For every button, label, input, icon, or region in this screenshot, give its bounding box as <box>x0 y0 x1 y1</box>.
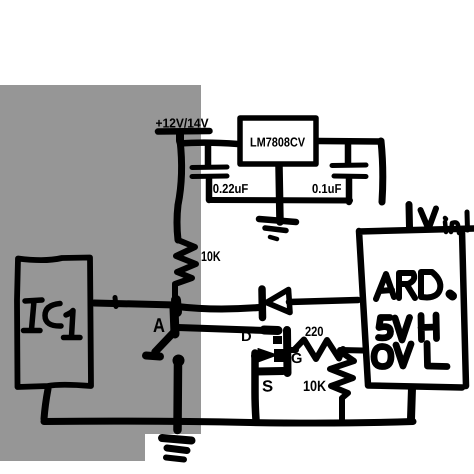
capacitor C2 plates <box>332 163 366 169</box>
MOSFET Q2 body contact bar <box>274 349 284 362</box>
wire: MOSFET gate stub <box>289 347 296 353</box>
label 220 <box>305 327 323 337</box>
node A junction blob <box>176 300 177 312</box>
label S (source) <box>263 380 273 391</box>
label D (drain) <box>242 332 251 341</box>
resistor R3 10K vertical zigzag <box>330 352 354 420</box>
capacitor C1 plates <box>192 165 227 171</box>
wire: diode to ARD box <box>289 300 358 302</box>
wire: IC1 output to node A junction <box>94 303 176 305</box>
wire: 220 to ARD box <box>340 347 363 354</box>
ground symbol bottom <box>162 438 192 441</box>
wire: collector dot to ground run <box>173 361 182 430</box>
capacitor C2 stub bottom <box>346 178 353 202</box>
MOSFET Q2 source bottom bar <box>256 367 283 376</box>
MOSFET Q2 body arrow <box>254 353 262 360</box>
ARD box <box>359 229 474 388</box>
transistor Q1 emitter diagonal <box>155 332 174 352</box>
LM7808 regulator box U2 <box>240 118 316 164</box>
label 10K (upper resistor) <box>202 251 221 261</box>
diode D1 cathode bar <box>258 289 266 318</box>
label LM7808CV <box>251 137 305 146</box>
resistor R1 10K vertical zigzag <box>175 240 196 308</box>
junction dot at emitter ground wire <box>173 355 185 367</box>
+12V/14V supply bar <box>158 128 210 135</box>
Vin right bracket <box>465 212 471 230</box>
bottom ground wire <box>44 421 413 423</box>
ground bus under caps <box>209 197 350 204</box>
capacitor C2 0.1uF stub top <box>345 143 352 164</box>
capacitor C1 stub bottom <box>206 178 213 200</box>
transistor Q1 base bar <box>174 308 175 334</box>
MOSFET Q2 drain stub knob <box>273 336 282 344</box>
diode D1 triangle <box>267 290 291 313</box>
handwritten ARD. label <box>376 272 453 299</box>
wire: node A to diode anode <box>177 307 259 310</box>
label G (gate) <box>292 353 302 363</box>
wire: ARD 0V lead down <box>411 388 412 419</box>
MOSFET Q2 channel bar <box>283 330 292 373</box>
MOSFET Q2 drain end blob <box>264 326 278 336</box>
wire: vertical feed down to 10K <box>177 140 182 240</box>
label 0.22uF <box>213 184 248 193</box>
label 10K (lower resistor) <box>304 381 326 392</box>
wire: right rail down to Vin <box>381 141 383 202</box>
label A (node) <box>153 318 164 332</box>
handwritten IC1 label <box>24 300 81 338</box>
MOSFET Q2 source line down <box>255 353 256 420</box>
wire: bar to vertical feed <box>176 133 184 141</box>
wire: LM7808 output to right rail <box>318 138 381 145</box>
label +12V/14V <box>156 118 209 128</box>
wire: IC1 bottom lead <box>44 389 48 419</box>
handwritten 5V H / 0V L label <box>374 315 447 367</box>
LM7808 ground pin <box>279 166 280 222</box>
Vin left bracket <box>406 205 414 228</box>
wire: transistor to MOSFET drain <box>178 328 266 331</box>
transistor Q1 emitter terminal blob <box>146 356 160 357</box>
wire: horizontal to LM7808 input <box>180 143 238 144</box>
gray overlay panel <box>0 85 201 461</box>
label 0.1uF <box>312 184 341 193</box>
resistor R2 220 horizontal zigzag <box>294 340 343 360</box>
IC1 box <box>17 258 91 388</box>
handwritten V in label <box>421 209 460 234</box>
ground symbol under LM7808 <box>259 219 296 222</box>
capacitor C1 0.22uF stub top <box>205 145 212 165</box>
junction tick near IC1 wire <box>115 298 116 307</box>
